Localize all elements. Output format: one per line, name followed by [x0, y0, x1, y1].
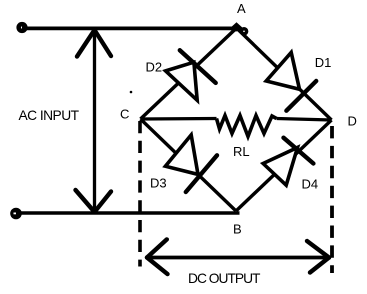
DC output measurement arrow (double-headed horizontal) [147, 239, 329, 274]
wire branch B to D [236, 120, 332, 211]
terminal T1 (AC input top) [16, 22, 27, 33]
dashed line from node D down [330, 126, 334, 273]
diode D2 (between C and A) [166, 50, 216, 100]
diode D1 (between A and D) [266, 52, 316, 110]
wire bottom: T2 to node B [16, 211, 240, 215]
svg-text:B: B [233, 222, 242, 237]
svg-text:AC INPUT: AC INPUT [19, 108, 80, 123]
svg-text:D3: D3 [150, 175, 167, 190]
svg-text:A: A [237, 1, 246, 16]
wire branch C to A [141, 28, 237, 119]
svg-text:D: D [348, 114, 357, 129]
svg-text:D2: D2 [146, 60, 163, 75]
wire top: T1 to node A [22, 27, 237, 31]
knot squiggle at node A [241, 29, 246, 34]
svg-text:D1: D1 [315, 55, 332, 70]
svg-text:RL: RL [233, 144, 250, 159]
dashed line from node C down [138, 121, 142, 267]
resistor RL (between C and D) [141, 116, 332, 137]
diode D3 (between C and B) [165, 135, 217, 192]
stray dot near C [130, 91, 133, 94]
junction bulge at node A [229, 22, 245, 31]
svg-text:C: C [120, 107, 129, 122]
wire branch C to B [141, 119, 237, 211]
wire branch A to D [237, 28, 332, 120]
svg-text:DC OUTPUT: DC OUTPUT [188, 271, 261, 286]
diode D4 (between B and D) [263, 138, 313, 186]
terminal T2 (AC input bottom) [10, 208, 22, 220]
AC input measurement arrow (double-headed vertical) [76, 30, 112, 212]
svg-text:D4: D4 [302, 177, 319, 192]
